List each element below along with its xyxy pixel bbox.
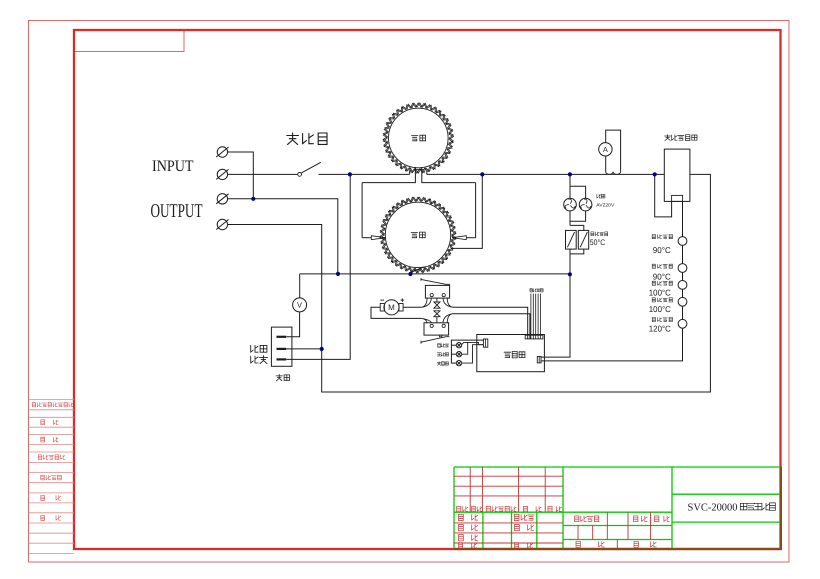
- terminal N: [216, 169, 228, 179]
- title block red grid: [454, 467, 651, 549]
- wire motor left loop: [371, 307, 421, 318]
- SQ1 plunger stem: [436, 298, 438, 302]
- lamp 超压灯: [451, 343, 461, 348]
- wire terminal out1 down to lower bus: [228, 199, 338, 274]
- wire from terminal L down to output node: [228, 152, 254, 199]
- left table label 描校: [41, 437, 58, 442]
- temperature sensor wire bundle: [531, 294, 541, 339]
- label 工作灯: [437, 353, 448, 356]
- label 温度开关 (100C row 3): [652, 298, 672, 302]
- svg-text:V: V: [297, 301, 303, 310]
- wire contactor coil to thermal chain: [682, 201, 684, 236]
- fan M2: [579, 198, 592, 211]
- thermal switch 90C: [678, 264, 687, 273]
- SQ2 plunger stem: [436, 317, 438, 323]
- left table label 底图总号: [41, 475, 62, 480]
- microswitch SQ2 lever: [421, 337, 449, 344]
- label 输出: [251, 345, 267, 352]
- T1 lead right: [422, 167, 476, 183]
- title label 审核: [459, 535, 478, 541]
- terminal out1: [216, 194, 228, 204]
- wire lower bus down to board right connector: [541, 274, 570, 357]
- thermal switch 50C wiring: [570, 249, 584, 274]
- coil tap crossing line: [414, 169, 424, 171]
- thermal switch 120C: [678, 319, 687, 328]
- thermal chain wires: [682, 245, 684, 319]
- label 线圈 (T1): [412, 135, 426, 141]
- wire motor right: [403, 306, 421, 308]
- wire bus node to contactor coil: [655, 174, 672, 217]
- board top connector: [525, 335, 543, 339]
- svg-text:OUTPUT: OUTPUT: [151, 201, 203, 222]
- label 输入: [251, 356, 268, 364]
- lower bus: [300, 273, 570, 275]
- svg-text:A: A: [603, 145, 608, 154]
- label 按钮: [276, 375, 289, 381]
- T2 bottom lead: [410, 267, 424, 274]
- board left connector: [483, 339, 487, 347]
- title label 设计: [459, 514, 478, 520]
- title label 日期: [548, 506, 562, 511]
- title label 处数: [472, 506, 483, 511]
- title label 重量: [634, 516, 648, 522]
- thermal switch 100C: [678, 281, 687, 290]
- indicator lamp rail: [451, 340, 483, 363]
- left table label 借(通)用件登记: [32, 403, 73, 407]
- title label 更改文件号: [486, 506, 516, 511]
- svg-text:INPUT: INPUT: [152, 158, 194, 175]
- title label 校对: [459, 525, 478, 531]
- transformer T2 variac coil: [385, 202, 450, 267]
- terminal L: [216, 147, 228, 157]
- label 温度开关 (wire bundle): [530, 289, 543, 292]
- wire bottom button contact to bus node: [286, 174, 350, 359]
- SQ2 plunger bowtie: [434, 311, 440, 317]
- brush arrow right: [466, 237, 475, 239]
- svg-text:120°C: 120°C: [649, 324, 671, 334]
- left table label 日期: [41, 516, 61, 521]
- main bus to contactor: [427, 173, 665, 175]
- T1 lead left: [362, 167, 415, 183]
- lamp 工作灯: [451, 352, 461, 357]
- board right connector: [537, 356, 541, 363]
- svg-text:100°C: 100°C: [649, 304, 671, 314]
- title label 标准化: [514, 514, 534, 520]
- wire board to thermal chain: [541, 328, 683, 361]
- svg-text:90°C: 90°C: [653, 271, 671, 281]
- title label 签字: [523, 506, 541, 511]
- svg-text:100°C: 100°C: [649, 287, 671, 297]
- wire voltmeter top: [299, 274, 301, 298]
- motor M: [380, 298, 404, 315]
- junction nodes: [251, 172, 657, 351]
- title block brown edges: [454, 548, 782, 550]
- thermal switch 90C: [678, 237, 687, 246]
- wire terminal N to breaker: [228, 173, 298, 175]
- title label 图样标记: [575, 516, 599, 522]
- lamp wires to connector: [462, 342, 484, 344]
- top-left reference box: [75, 31, 184, 52]
- wire SQ1 to board connector: [453, 307, 528, 338]
- brush riser right: [475, 183, 477, 238]
- svg-text:M: M: [388, 303, 395, 312]
- title label 比例: [655, 516, 670, 522]
- contactor coil box: [672, 195, 683, 201]
- label 线圈 (T2): [411, 232, 425, 238]
- title block green grid: [454, 467, 781, 549]
- breaker QF contact: [298, 162, 321, 176]
- thermal switch 50C pair: [566, 230, 589, 249]
- microswitch SQ2 body: [424, 323, 449, 337]
- brush arrow left: [362, 237, 371, 239]
- title label 共张: [576, 541, 604, 547]
- brush riser left: [361, 183, 363, 238]
- label 温度开关 (100C row 2): [652, 281, 672, 285]
- microswitch SQ1 lever: [421, 278, 449, 285]
- title label 工艺: [458, 543, 476, 548]
- label 超压灯: [438, 344, 449, 348]
- left table label 描图: [41, 420, 58, 425]
- svg-text:90°C: 90°C: [653, 245, 671, 255]
- label 温度开关 (90C row 1): [652, 264, 672, 268]
- svg-text:AV220V: AV220V: [596, 202, 615, 207]
- transformer T1 series coil: [389, 108, 449, 168]
- wire voltmeter bottom to button: [286, 312, 299, 337]
- title label 审定: [515, 525, 534, 531]
- wire middle button contact: [286, 348, 322, 350]
- voltmeter V: [293, 298, 307, 312]
- drawing title 电气原理图: [740, 503, 775, 510]
- label 欠压灯: [437, 362, 448, 366]
- drawing frame (thick red border): [74, 30, 781, 549]
- left table label 旧底图总号: [38, 455, 65, 460]
- title label 第张: [634, 541, 656, 547]
- label 温度开关 (50C): [591, 232, 608, 236]
- T2 fixed tap to bus: [451, 174, 482, 248]
- label 风扇: [597, 194, 605, 198]
- circuit board 线路板: [477, 335, 545, 372]
- fan branch wiring: [570, 174, 586, 230]
- lamp 欠压灯: [451, 360, 461, 365]
- terminal out2: [216, 219, 228, 229]
- label 温度开关 (120C row 4): [652, 317, 672, 321]
- left margin table: [29, 400, 75, 554]
- label 交流接触器: [665, 135, 697, 141]
- svg-text:50°C: 50°C: [590, 238, 606, 247]
- label 断路器: [287, 133, 327, 144]
- AC contactor KM: [664, 149, 690, 201]
- wire bus jog right from coil: [426, 170, 428, 174]
- thermal switch 100C: [678, 297, 687, 306]
- SQ2 legs: [421, 318, 431, 322]
- title label 标记: [457, 506, 468, 511]
- wire bus jog left into coil: [409, 170, 411, 174]
- SQ1 legs: [421, 298, 431, 307]
- svg-text:SVC-20000: SVC-20000: [688, 502, 738, 513]
- wire terminal out2 / outer loop: [228, 174, 711, 392]
- left table label 签字: [41, 496, 61, 501]
- label 线路板: [504, 352, 525, 358]
- wire breaker to bus: [319, 173, 410, 175]
- fan M1: [564, 198, 577, 211]
- label 温度开关 (90C row 0): [652, 235, 672, 239]
- wire SQ2 to board connector: [453, 314, 530, 339]
- microswitch SQ1 body: [425, 285, 449, 298]
- title label 日期2: [514, 543, 532, 548]
- SQ1 plunger bowtie: [434, 302, 440, 308]
- button box 按钮: [271, 327, 292, 366]
- ammeter CT loop: [599, 130, 621, 174]
